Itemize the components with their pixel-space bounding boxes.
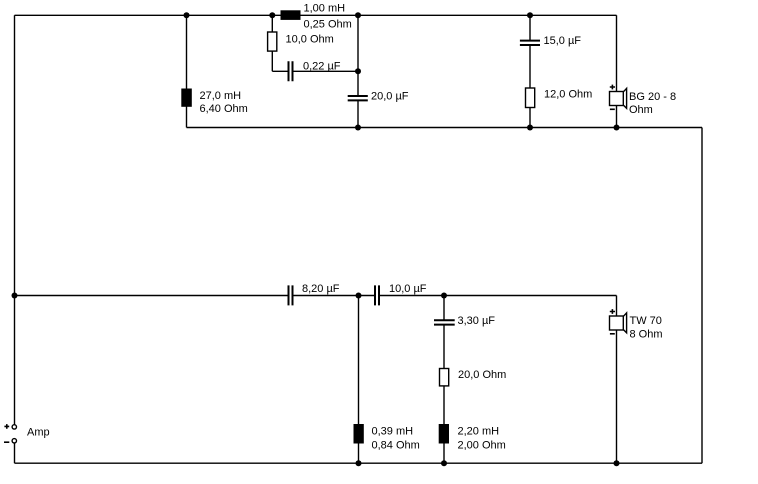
inductor L1 1,00 mH 0,25 Ohm (281, 10, 301, 20)
speaker BG20 cone (624, 88, 627, 108)
svg-text:12,0 Ohm: 12,0 Ohm (544, 89, 592, 101)
resistor R3 20,0 Ohm (440, 369, 449, 386)
svg-text:0,39 mH: 0,39 mH (372, 426, 414, 438)
node bottom rail / L4 branch (441, 460, 447, 466)
wire TW70 branch vertical (616, 296, 618, 464)
resistor R2 12,0 Ohm (526, 88, 535, 108)
wire L3 branch vertical (358, 296, 360, 464)
speaker TW70 cone (624, 313, 627, 333)
svg-text:2,00 Ohm: 2,00 Ohm (458, 440, 506, 452)
capacitor C4 8,20 uF plates (289, 285, 293, 305)
terminal Amp plus (12, 425, 16, 429)
node top rail / L2 branch (184, 12, 190, 18)
speaker TW70 minus mark (610, 333, 615, 335)
speaker BG20 minus mark (610, 108, 615, 110)
wire C2 branch vertical (357, 15, 359, 127)
node top rail / R1 branch (269, 12, 275, 18)
svg-text:10,0 Ohm: 10,0 Ohm (286, 34, 334, 46)
speaker BG20 plus mark (610, 85, 615, 90)
wire right return vertical (701, 128, 703, 464)
wire R1 branch down and left of C1 (272, 15, 288, 71)
node top rail / C3 branch (527, 12, 533, 18)
svg-text:27,0 mH: 27,0 mH (200, 90, 242, 102)
wire woofer section bottom rail (187, 127, 703, 129)
svg-text:8 Ohm: 8 Ohm (630, 329, 663, 341)
capacitor C1 0,22 uF plates (289, 61, 293, 81)
speaker TW70 box (610, 316, 624, 330)
svg-text:20,0 µF: 20,0 µF (371, 91, 409, 103)
terminal Amp minus (12, 439, 16, 443)
svg-text:8,20 µF: 8,20 µF (302, 283, 340, 295)
wire tweeter input segment 2 (294, 295, 376, 297)
node C1 output / C2 branch junction (355, 68, 361, 74)
wire C6 R3 L4 branch vertical (443, 296, 445, 464)
node woofer bottom rail / C2 (355, 125, 361, 131)
speaker BG20 box (610, 92, 624, 106)
label Amp plus sign (4, 424, 9, 429)
node top rail / C2 branch (355, 12, 361, 18)
wire right of C1 (294, 70, 359, 72)
wire from minus terminal to bottom rail (14, 443, 16, 463)
svg-text:2,20 mH: 2,20 mH (458, 426, 500, 438)
node bottom rail / TW70 (614, 460, 620, 466)
label Amp minus sign (4, 441, 9, 443)
svg-text:TW 70: TW 70 (630, 315, 662, 327)
svg-text:0,25 Ohm: 0,25 Ohm (304, 19, 352, 31)
node left rail / tweeter input (12, 293, 18, 299)
wire L2 branch vertical (186, 15, 188, 127)
wire C3 R2 branch vertical (529, 15, 531, 127)
svg-text:20,0 Ohm: 20,0 Ohm (458, 369, 506, 381)
node tweeter input / C6 branch (441, 293, 447, 299)
svg-text:3,30 µF: 3,30 µF (458, 315, 496, 327)
node bottom rail / L3 (356, 460, 362, 466)
svg-text:0,84 Ohm: 0,84 Ohm (372, 440, 420, 452)
svg-text:0,22 µF: 0,22 µF (303, 60, 341, 72)
svg-text:15,0 µF: 15,0 µF (544, 35, 582, 47)
wire tweeter input segment 3 (380, 295, 617, 297)
capacitor C5 10,0 uF plates (375, 285, 379, 305)
svg-text:1,00 mH: 1,00 mH (304, 2, 346, 14)
node woofer bottom rail / BG20 (614, 125, 620, 131)
inductor L3 0,39 mH 0,84 Ohm (354, 424, 364, 444)
wire bottom return rail (15, 462, 703, 464)
wire top positive rail (15, 14, 617, 16)
svg-text:BG 20 - 8: BG 20 - 8 (629, 91, 676, 103)
capacitor C2 20,0 uF plates (348, 96, 368, 100)
wire tweeter input segment 1 (15, 295, 289, 297)
node tweeter input / L3 branch (356, 293, 362, 299)
svg-text:6,40 Ohm: 6,40 Ohm (200, 103, 248, 115)
svg-text:Amp: Amp (27, 427, 50, 439)
inductor L4 2,20 mH 2,00 Ohm (439, 424, 449, 444)
resistor R1 10,0 Ohm (268, 32, 277, 51)
node woofer bottom rail / R2 (527, 125, 533, 131)
capacitor C3 15,0 uF plates (520, 41, 540, 45)
wire BG20 branch vertical (616, 15, 618, 127)
svg-text:10,0 µF: 10,0 µF (389, 283, 427, 295)
wire left positive rail (14, 15, 16, 424)
svg-text:Ohm: Ohm (629, 104, 653, 116)
speaker TW70 plus mark (610, 309, 615, 314)
capacitor C6 3,30 uF plates (434, 320, 455, 324)
inductor L2 27,0 mH 6,40 Ohm (181, 89, 192, 107)
